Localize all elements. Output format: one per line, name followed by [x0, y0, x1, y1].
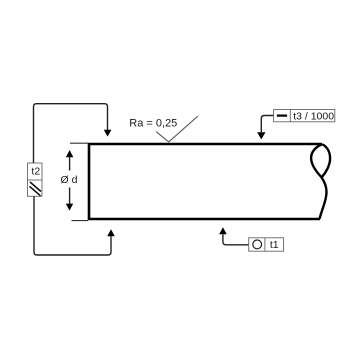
straightness symbol: [277, 115, 287, 117]
svg-text:t3 / 1000: t3 / 1000: [293, 111, 334, 123]
t3 leader wire: [261, 116, 273, 133]
t2 top leader arrowhead: [104, 130, 112, 137]
svg-text:t2: t2: [31, 165, 40, 177]
t1 frame box: [249, 238, 284, 251]
parallelism symbol line 1: [30, 182, 41, 192]
svg-text:Ra = 0,25: Ra = 0,25: [129, 118, 177, 130]
dimension arrow up: [66, 150, 73, 157]
surface roughness check mark: [156, 116, 198, 142]
svg-text:t1: t1: [270, 239, 279, 251]
break line loop: [311, 144, 330, 177]
parallelism symbol line 2: [30, 186, 41, 196]
dimension line upper segment: [69, 156, 71, 170]
t2 bottom leader wire: [34, 196, 111, 255]
dimension line lower segment: [69, 188, 71, 205]
extension line bottom: [72, 220, 89, 222]
circularity symbol: [253, 240, 262, 249]
t2 frame box: [28, 163, 43, 196]
t1 leader wire: [223, 234, 249, 244]
t2 top leader wire: [34, 104, 108, 163]
dimension arrow down: [66, 204, 73, 211]
t3 frame box: [274, 110, 335, 122]
extension line top: [70, 142, 88, 144]
t1 leader arrowhead: [219, 227, 227, 234]
t3 leader arrowhead: [257, 132, 265, 139]
svg-text:Ø d: Ø d: [61, 174, 78, 186]
t2 bottom leader arrowhead: [107, 229, 115, 236]
break line s-curve: [320, 178, 327, 219]
shaft outline: [89, 144, 322, 219]
